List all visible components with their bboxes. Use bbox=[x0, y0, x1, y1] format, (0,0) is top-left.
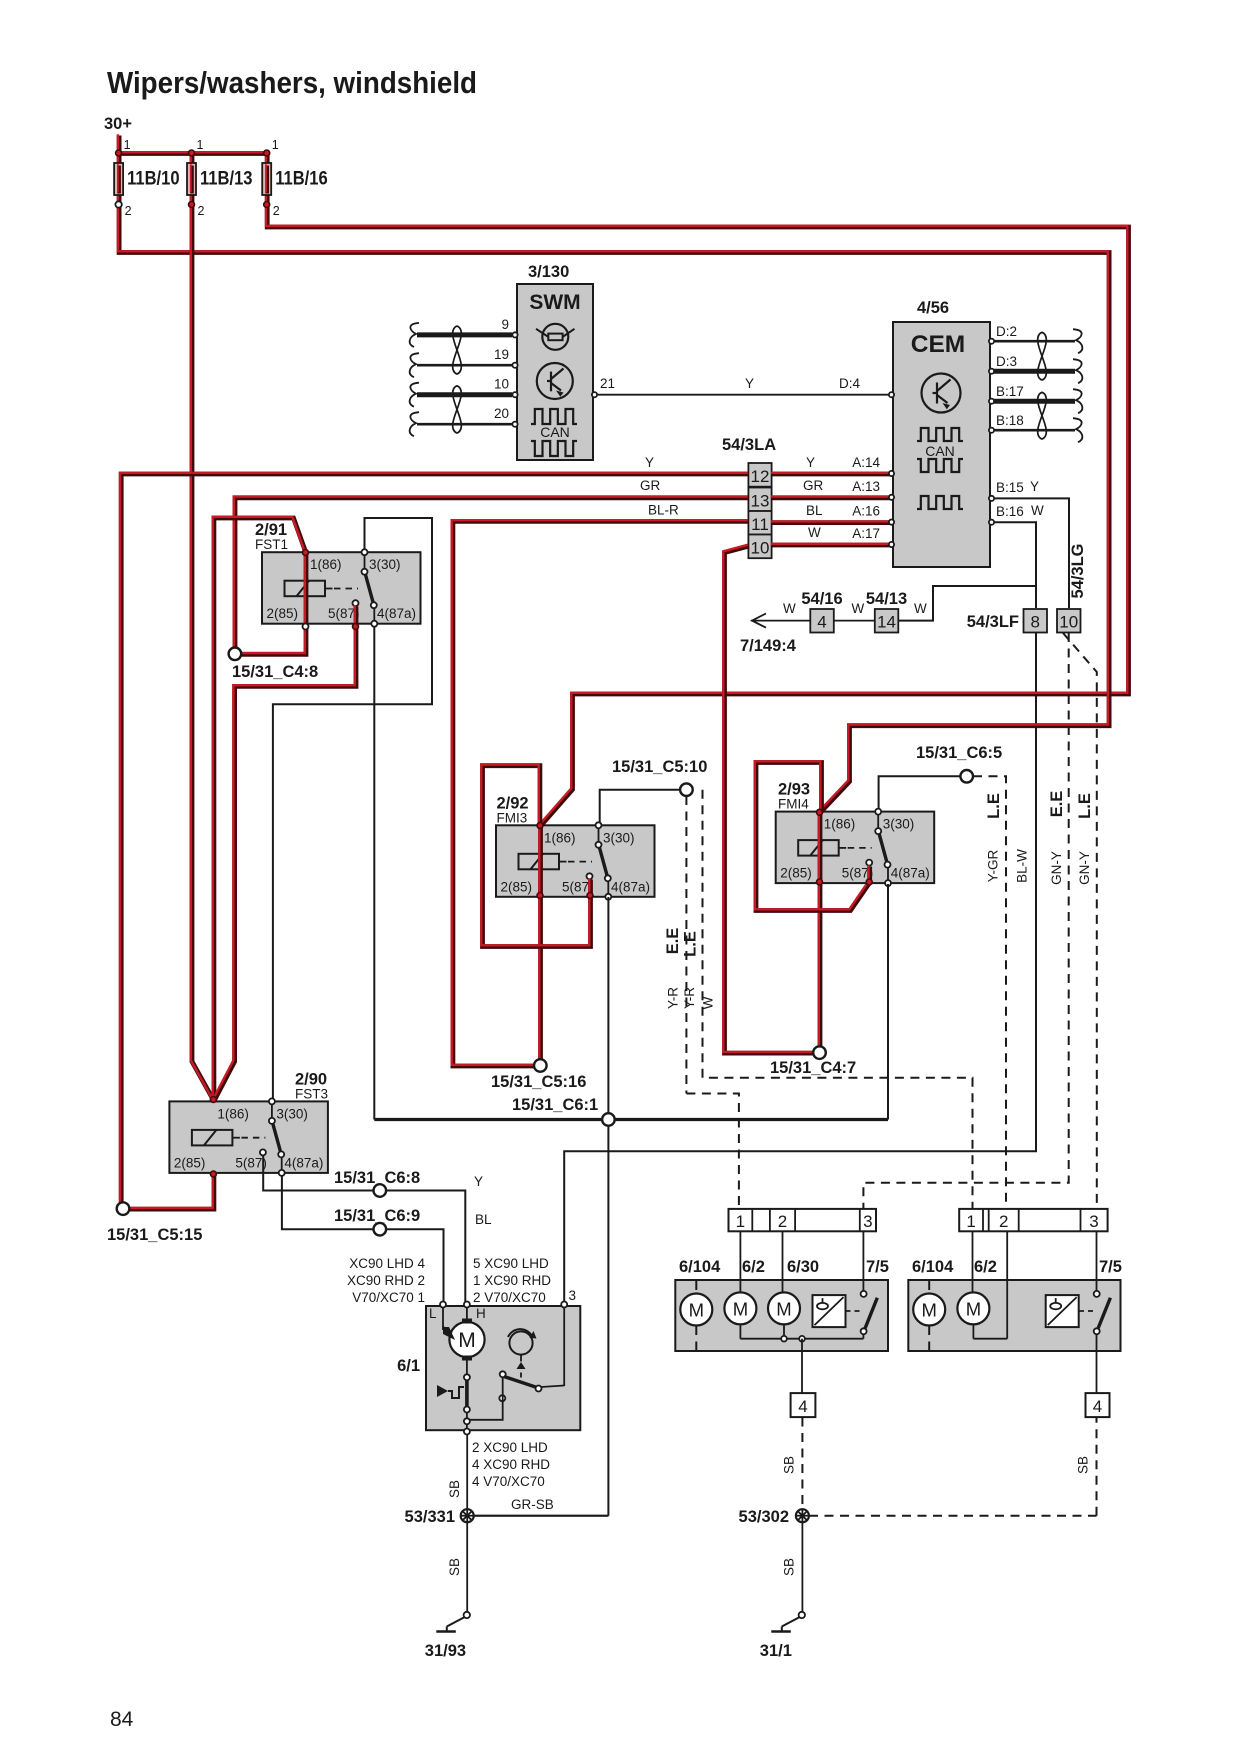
svg-text:A:13: A:13 bbox=[852, 479, 880, 494]
svg-text:3(30): 3(30) bbox=[603, 830, 635, 845]
svg-text:15/31_C4:8: 15/31_C4:8 bbox=[232, 663, 318, 681]
svg-text:Wipers/washers, windshield: Wipers/washers, windshield bbox=[107, 65, 477, 100]
svg-text:E.E: E.E bbox=[1048, 791, 1066, 818]
svg-text:W: W bbox=[1031, 503, 1044, 518]
svg-text:4: 4 bbox=[798, 1397, 807, 1416]
svg-text:D:4: D:4 bbox=[839, 376, 861, 391]
svg-text:15/31_C4:7: 15/31_C4:7 bbox=[770, 1059, 856, 1077]
svg-text:4: 4 bbox=[1093, 1397, 1102, 1416]
svg-text:1(86): 1(86) bbox=[217, 1106, 249, 1121]
svg-text:4: 4 bbox=[817, 613, 826, 632]
svg-text:11: 11 bbox=[751, 515, 769, 534]
svg-text:53/302: 53/302 bbox=[739, 1508, 789, 1526]
svg-text:13: 13 bbox=[751, 492, 770, 511]
svg-text:6/104: 6/104 bbox=[912, 1258, 954, 1276]
svg-text:E.E: E.E bbox=[664, 928, 682, 955]
svg-text:A:17: A:17 bbox=[852, 526, 880, 541]
svg-text:20: 20 bbox=[494, 406, 509, 421]
svg-text:SB: SB bbox=[782, 1558, 797, 1576]
svg-text:4(87a): 4(87a) bbox=[891, 866, 930, 881]
svg-text:15/31_C6:1: 15/31_C6:1 bbox=[512, 1096, 598, 1114]
svg-text:FMI4: FMI4 bbox=[778, 797, 809, 812]
svg-text:B:16: B:16 bbox=[996, 504, 1024, 519]
svg-text:9: 9 bbox=[501, 317, 509, 332]
svg-text:1: 1 bbox=[124, 138, 131, 152]
svg-text:3(30): 3(30) bbox=[276, 1106, 308, 1121]
svg-text:19: 19 bbox=[494, 347, 509, 362]
svg-text:B:18: B:18 bbox=[996, 413, 1024, 428]
svg-text:5(87): 5(87) bbox=[235, 1155, 267, 1170]
svg-text:1: 1 bbox=[197, 138, 204, 152]
svg-text:10: 10 bbox=[751, 539, 770, 558]
svg-text:54/3LG: 54/3LG bbox=[1069, 543, 1087, 598]
svg-text:54/13: 54/13 bbox=[866, 590, 907, 608]
svg-text:1(86): 1(86) bbox=[824, 817, 856, 832]
svg-text:Y: Y bbox=[474, 1174, 483, 1189]
svg-text:SB: SB bbox=[447, 1480, 462, 1498]
svg-text:14: 14 bbox=[877, 613, 896, 632]
svg-text:3/130: 3/130 bbox=[528, 263, 569, 281]
svg-text:21: 21 bbox=[600, 376, 615, 391]
svg-text:4(87a): 4(87a) bbox=[611, 879, 650, 894]
svg-text:4(87a): 4(87a) bbox=[377, 606, 416, 621]
svg-text:D:3: D:3 bbox=[996, 354, 1017, 369]
svg-text:15/31_C6:5: 15/31_C6:5 bbox=[916, 744, 1002, 762]
svg-text:BL-W: BL-W bbox=[1015, 849, 1030, 883]
svg-text:Y: Y bbox=[806, 455, 815, 470]
svg-text:M: M bbox=[921, 1300, 936, 1321]
svg-text:53/331: 53/331 bbox=[405, 1508, 455, 1526]
svg-text:4/56: 4/56 bbox=[917, 299, 949, 317]
svg-text:84: 84 bbox=[110, 1708, 134, 1731]
svg-text:CAN: CAN bbox=[925, 443, 955, 459]
svg-text:M: M bbox=[458, 1329, 476, 1352]
svg-text:7/149:4: 7/149:4 bbox=[740, 637, 797, 655]
svg-text:8: 8 bbox=[1030, 613, 1039, 632]
svg-text:Y-GR: Y-GR bbox=[986, 849, 1001, 882]
svg-text:GN-Y: GN-Y bbox=[1049, 851, 1064, 885]
svg-text:54/3LA: 54/3LA bbox=[722, 436, 776, 454]
svg-text:15/31_C5:15: 15/31_C5:15 bbox=[107, 1226, 202, 1244]
svg-text:6/1: 6/1 bbox=[397, 1357, 420, 1375]
svg-text:5 XC90 LHD: 5 XC90 LHD bbox=[473, 1256, 549, 1271]
svg-text:M: M bbox=[776, 1298, 791, 1319]
svg-text:BL: BL bbox=[806, 503, 823, 518]
svg-text:54/16: 54/16 bbox=[801, 590, 842, 608]
svg-text:M: M bbox=[689, 1300, 704, 1321]
svg-text:XC90 RHD 2: XC90 RHD 2 bbox=[347, 1273, 425, 1288]
svg-text:SB: SB bbox=[782, 1456, 797, 1474]
svg-text:1: 1 bbox=[272, 138, 279, 152]
svg-text:GR: GR bbox=[640, 478, 661, 493]
svg-text:Y: Y bbox=[645, 455, 654, 470]
svg-text:31/1: 31/1 bbox=[760, 1642, 792, 1660]
svg-text:BL-R: BL-R bbox=[648, 503, 679, 518]
svg-text:Y-R: Y-R bbox=[666, 987, 681, 1009]
svg-text:Y: Y bbox=[745, 376, 754, 391]
svg-text:2(85): 2(85) bbox=[501, 879, 533, 894]
svg-text:7/5: 7/5 bbox=[866, 1258, 889, 1276]
svg-text:A:16: A:16 bbox=[852, 504, 880, 519]
svg-text:W: W bbox=[783, 601, 796, 616]
svg-text:Y: Y bbox=[1030, 479, 1039, 494]
svg-text:CEM: CEM bbox=[911, 331, 965, 358]
svg-text:SWM: SWM bbox=[529, 291, 580, 314]
svg-text:31/93: 31/93 bbox=[425, 1642, 466, 1660]
svg-text:W: W bbox=[701, 996, 716, 1009]
svg-text:6/30: 6/30 bbox=[787, 1258, 819, 1276]
svg-text:FMI3: FMI3 bbox=[497, 810, 528, 825]
svg-text:2: 2 bbox=[999, 1212, 1008, 1231]
svg-text:6/104: 6/104 bbox=[679, 1258, 721, 1276]
svg-text:6/2: 6/2 bbox=[742, 1258, 765, 1276]
svg-text:2(85): 2(85) bbox=[780, 866, 812, 881]
svg-text:GR: GR bbox=[803, 478, 824, 493]
svg-text:3(30): 3(30) bbox=[369, 557, 401, 572]
svg-text:FST3: FST3 bbox=[295, 1086, 328, 1101]
svg-text:4 XC90 RHD: 4 XC90 RHD bbox=[472, 1457, 550, 1472]
svg-text:W: W bbox=[852, 601, 865, 616]
svg-text:15/31_C5:10: 15/31_C5:10 bbox=[612, 758, 707, 776]
svg-text:L.E: L.E bbox=[1076, 793, 1094, 819]
svg-text:Y-R: Y-R bbox=[682, 987, 697, 1009]
svg-text:BL: BL bbox=[475, 1212, 492, 1227]
svg-text:W: W bbox=[808, 525, 821, 540]
svg-text:6/2: 6/2 bbox=[974, 1258, 997, 1276]
svg-text:2: 2 bbox=[273, 204, 280, 218]
svg-text:2 V70/XC70: 2 V70/XC70 bbox=[473, 1290, 546, 1305]
svg-text:L: L bbox=[429, 1306, 437, 1321]
svg-text:3(30): 3(30) bbox=[883, 817, 915, 832]
svg-text:B:17: B:17 bbox=[996, 384, 1024, 399]
svg-text:15/31_C5:16: 15/31_C5:16 bbox=[491, 1073, 586, 1091]
svg-text:CAN: CAN bbox=[540, 424, 570, 440]
svg-text:2(85): 2(85) bbox=[267, 606, 299, 621]
svg-text:10: 10 bbox=[1059, 613, 1078, 632]
svg-text:1(86): 1(86) bbox=[310, 557, 342, 572]
svg-text:4(87a): 4(87a) bbox=[284, 1155, 323, 1170]
svg-text:1: 1 bbox=[966, 1212, 975, 1231]
svg-text:7/5: 7/5 bbox=[1099, 1258, 1122, 1276]
svg-text:GR-SB: GR-SB bbox=[511, 1497, 554, 1512]
svg-text:D:2: D:2 bbox=[996, 324, 1017, 339]
svg-text:4 V70/XC70: 4 V70/XC70 bbox=[472, 1474, 545, 1489]
svg-text:3: 3 bbox=[863, 1212, 872, 1231]
svg-text:1: 1 bbox=[736, 1212, 745, 1231]
svg-text:V70/XC70 1: V70/XC70 1 bbox=[352, 1290, 425, 1305]
svg-text:2: 2 bbox=[125, 204, 132, 218]
svg-text:W: W bbox=[914, 601, 927, 616]
svg-text:2: 2 bbox=[198, 204, 205, 218]
svg-text:GN-Y: GN-Y bbox=[1077, 851, 1092, 885]
svg-text:L.E: L.E bbox=[682, 931, 700, 957]
svg-text:2: 2 bbox=[778, 1212, 787, 1231]
svg-text:L.E: L.E bbox=[985, 793, 1003, 819]
svg-text:2(85): 2(85) bbox=[174, 1155, 206, 1170]
svg-text:SB: SB bbox=[447, 1558, 462, 1576]
svg-text:30+: 30+ bbox=[104, 115, 132, 133]
svg-text:1(86): 1(86) bbox=[544, 830, 576, 845]
svg-text:3: 3 bbox=[569, 1288, 577, 1303]
svg-text:1 XC90 RHD: 1 XC90 RHD bbox=[473, 1273, 551, 1288]
svg-text:A:14: A:14 bbox=[852, 455, 880, 470]
svg-text:54/3LF: 54/3LF bbox=[967, 613, 1019, 631]
svg-text:SB: SB bbox=[1076, 1456, 1091, 1474]
svg-text:B:15: B:15 bbox=[996, 480, 1024, 495]
svg-text:M: M bbox=[966, 1298, 981, 1319]
svg-text:11B/13: 11B/13 bbox=[200, 169, 253, 190]
svg-text:12: 12 bbox=[751, 467, 770, 486]
svg-text:11B/16: 11B/16 bbox=[275, 169, 328, 190]
svg-text:3: 3 bbox=[1089, 1212, 1098, 1231]
svg-text:2 XC90 LHD: 2 XC90 LHD bbox=[472, 1440, 548, 1455]
svg-text:M: M bbox=[733, 1298, 748, 1319]
svg-text:11B/10: 11B/10 bbox=[127, 169, 180, 190]
svg-text:XC90 LHD 4: XC90 LHD 4 bbox=[349, 1256, 425, 1271]
svg-text:10: 10 bbox=[494, 377, 509, 392]
svg-text:FST1: FST1 bbox=[255, 537, 288, 552]
svg-text:H: H bbox=[476, 1306, 486, 1321]
